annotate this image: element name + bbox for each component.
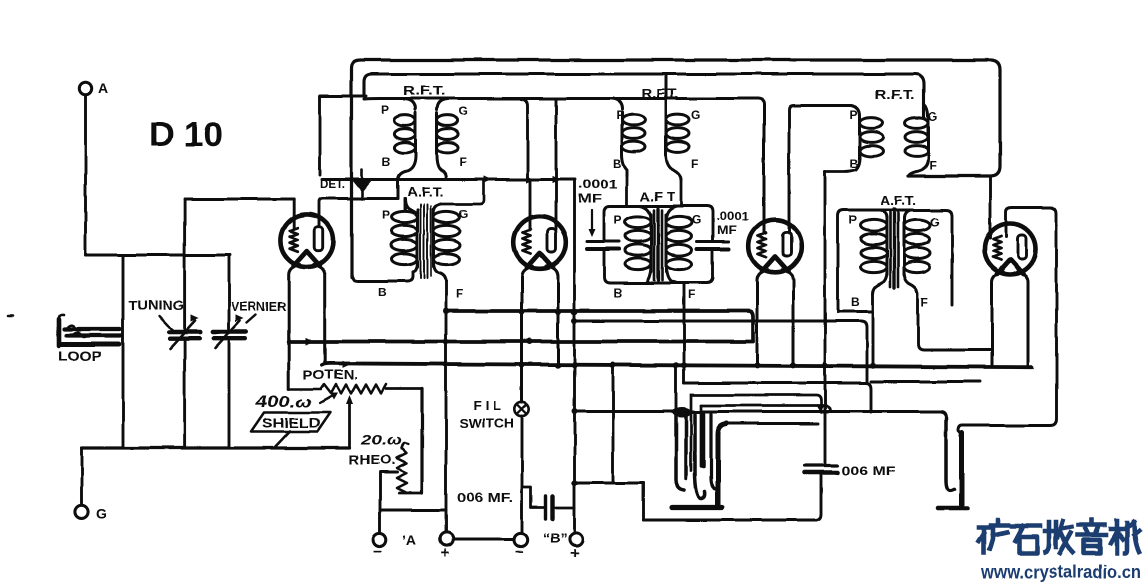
label R.F.T. (third RF transformer) bbox=[875, 88, 915, 102]
value 006 MF bbox=[841, 464, 895, 478]
label A.F.T. (third AF transformer) bbox=[880, 194, 916, 208]
pin P of A.F.T.3 bbox=[849, 213, 857, 227]
battery terminal A plus bbox=[440, 532, 453, 545]
pin P of R.F.T.1 bbox=[381, 103, 389, 117]
tube V1 right filament leg bbox=[314, 265, 325, 364]
svg-text:F: F bbox=[691, 157, 698, 171]
junction arrows on grid return bus bbox=[305, 338, 350, 368]
tube V1 left filament leg bbox=[289, 265, 300, 390]
watermark www.crystalradio.cn bbox=[980, 561, 1141, 582]
pin F of R.F.T.1 bbox=[459, 155, 466, 169]
polarity plus of B battery bbox=[570, 545, 579, 562]
wire: A.F.T.3 B lead to filament bus bbox=[872, 294, 875, 366]
polarity plus of A battery bbox=[441, 545, 450, 562]
svg-text:−: − bbox=[374, 543, 383, 560]
wire: rheostat arm to A minus bbox=[380, 472, 397, 533]
svg-text:G: G bbox=[691, 108, 700, 122]
label RHEO. bbox=[349, 453, 395, 467]
wire: V1 right leg extension into bus bbox=[324, 274, 326, 364]
svg-text:F I L: F I L bbox=[473, 399, 501, 413]
A.F.T.1 iron core bbox=[421, 204, 432, 278]
label DET. bbox=[320, 179, 345, 191]
svg-text:MF: MF bbox=[717, 225, 737, 237]
wire: A plus to B minus link bbox=[454, 538, 515, 541]
svg-text:006 MF.: 006 MF. bbox=[457, 491, 513, 505]
pin G of A.F.T.3 bbox=[930, 215, 939, 229]
wire: V2 plate riser bbox=[555, 99, 558, 229]
net: outer B+ top rail bbox=[352, 60, 1001, 277]
label G (ground terminal) bbox=[96, 505, 107, 521]
svg-text:G: G bbox=[692, 213, 701, 227]
wire: V3 grid riser bbox=[763, 104, 765, 234]
pin G of A.F.T.2 bbox=[692, 213, 701, 227]
pin P of R.F.T.3 bbox=[850, 108, 858, 122]
value 20 ohm annotation bbox=[360, 433, 407, 448]
tube V2 left filament leg bbox=[522, 266, 533, 402]
pin B of A.F.T.1 bbox=[378, 285, 387, 299]
wire: vernier capacitor branch lower bbox=[228, 342, 231, 449]
svg-text:F: F bbox=[456, 287, 463, 301]
svg-text:A.F.T.: A.F.T. bbox=[880, 194, 916, 208]
wire: V2 grid stub bbox=[529, 181, 532, 230]
wire: A plus riser bbox=[445, 311, 448, 531]
wire: V4 grid stub from rail bbox=[989, 176, 992, 238]
A.F.T.3 primary coil bbox=[861, 210, 887, 294]
svg-text:“B”: “B” bbox=[543, 530, 567, 546]
wire: bus level y405 elbow bbox=[701, 406, 830, 412]
svg-text:F: F bbox=[921, 295, 928, 309]
svg-text:RHEO.: RHEO. bbox=[349, 453, 395, 467]
wire: elbow level y395 drop bbox=[690, 395, 693, 471]
wire: V1 grid top stub bbox=[292, 199, 295, 228]
loop antenna bbox=[58, 314, 122, 346]
wire: elbow level y405 drop bbox=[700, 406, 703, 467]
svg-text:P: P bbox=[382, 208, 390, 222]
R.F.T.2 primary coil bbox=[611, 99, 645, 177]
set title D 10 bbox=[149, 116, 223, 154]
svg-text:F: F bbox=[688, 288, 695, 302]
svg-text:+: + bbox=[441, 545, 450, 562]
resistor rheostat 20 ohm bbox=[397, 443, 423, 493]
A.F.T.3 iron core bbox=[890, 209, 898, 288]
A.F.T.2 secondary coil bbox=[666, 206, 692, 283]
wire: A.F.T.1 G lead to grid line bbox=[441, 180, 484, 205]
terminal A bbox=[79, 82, 91, 94]
battery terminal B minus bbox=[514, 533, 527, 546]
watermark logo (crystal radio Chinese characters) bbox=[979, 520, 1139, 553]
pin P of R.F.T.2 bbox=[616, 108, 624, 122]
wire: ground bus bottom bbox=[82, 446, 350, 449]
tube V2 (first amplifier) bbox=[514, 216, 567, 269]
annotation arrow to .0001 MF capacitor bbox=[589, 210, 596, 237]
svg-text:B: B bbox=[378, 285, 387, 299]
wire: R.F.T.1 box right edge bbox=[521, 99, 528, 180]
stray mark bbox=[8, 315, 13, 318]
wire: x575 drop grid-line to B plus terminal bbox=[573, 180, 576, 533]
pin F of A.F.T.2 bbox=[688, 288, 695, 302]
tube V4 left filament leg bbox=[992, 272, 1003, 365]
label TUNING bbox=[128, 298, 184, 313]
A.F.T.1 primary coil bbox=[392, 199, 418, 273]
net: B minus return rail bbox=[643, 518, 816, 521]
wire: DET vertical drop bbox=[319, 96, 322, 175]
svg-text:B: B bbox=[613, 286, 622, 300]
wire: A.F.T.1 B loop (box bottom) bbox=[352, 272, 414, 281]
wire: A.F.T.2 resonant box frame bbox=[604, 206, 713, 283]
wire: A.F.T.3 box bottom edge bbox=[838, 310, 873, 313]
net: R.F.T.1 box top edge and plate rail to V3 bbox=[364, 99, 764, 234]
R.F.T.3 secondary coil bbox=[905, 104, 928, 176]
capacitor C1 .0001 MF bbox=[587, 242, 619, 250]
wire: jack feed line y412 bbox=[575, 412, 947, 419]
svg-text:B: B bbox=[382, 155, 391, 169]
wire: return rail riser bbox=[642, 483, 645, 520]
svg-text:LOOP: LOOP bbox=[58, 349, 102, 364]
headphone jack J2 contacts bbox=[938, 418, 967, 508]
svg-text:B: B bbox=[613, 157, 622, 171]
pin G of R.F.T.1 bbox=[459, 104, 468, 118]
wire: top-left rail stub to DET drop bbox=[320, 95, 366, 98]
net: filament plus rail bbox=[446, 311, 753, 341]
wire: R.F.T.2 F lead to A.F.T.2 box bbox=[680, 180, 683, 206]
pin F of A.F.T.3 bbox=[921, 295, 928, 309]
svg-text:D 10: D 10 bbox=[149, 116, 223, 154]
svg-text:.0001: .0001 bbox=[716, 211, 750, 223]
tube V3 right filament leg bbox=[782, 270, 793, 365]
svg-text:P: P bbox=[614, 213, 622, 227]
svg-text:20.ω,: 20.ω, bbox=[360, 433, 407, 448]
SHIELD label plate bbox=[251, 413, 330, 432]
svg-text:G: G bbox=[96, 505, 107, 521]
wire: bus level y383 right stub bbox=[871, 380, 981, 383]
wire: A.F.T.1 primary top lead bbox=[404, 199, 407, 211]
wire: A.F.T.3 F lead to V4 leg bbox=[918, 294, 992, 350]
label "B" battery bbox=[543, 530, 567, 546]
A.F.T.2 primary coil bbox=[625, 206, 651, 283]
A.F.T.2 iron core bbox=[654, 209, 662, 280]
pin B of R.F.T.1 bbox=[382, 155, 391, 169]
annotation arrow 400w bbox=[320, 393, 338, 403]
pin G of R.F.T.2 bbox=[691, 108, 700, 122]
wire: bus level y395 bbox=[691, 395, 821, 412]
headphone jack J1 contacts bbox=[672, 414, 818, 508]
potentiometer wiper arm to ground bbox=[346, 395, 353, 448]
terminal G bbox=[75, 505, 88, 518]
tube V3 (second amplifier) bbox=[749, 220, 802, 273]
wire: bypass condenser riser bbox=[824, 172, 827, 464]
wire: A battery link y510 bbox=[380, 509, 446, 512]
pin F of A.F.T.1 bbox=[456, 287, 463, 301]
filament switch bbox=[515, 402, 529, 416]
label SHIELD bbox=[262, 415, 320, 431]
R.F.T.1 secondary coil G-F bbox=[437, 99, 459, 180]
label 'A battery bbox=[402, 532, 416, 548]
svg-text:F: F bbox=[459, 155, 466, 169]
svg-text:B: B bbox=[850, 157, 859, 171]
pin P of A.F.T.1 bbox=[382, 208, 390, 222]
svg-text:.0001: .0001 bbox=[578, 177, 618, 191]
svg-text:P: P bbox=[616, 108, 624, 122]
svg-text:−: − bbox=[515, 543, 524, 560]
wire: filament switch lower lead to B minus terminal bbox=[521, 416, 524, 532]
svg-text:G: G bbox=[459, 207, 468, 221]
label FIL bbox=[473, 399, 501, 413]
svg-text:+: + bbox=[570, 545, 579, 562]
diode DET (crystal detector) bbox=[353, 170, 371, 199]
wire: A.F.T.3 box frame bbox=[838, 210, 952, 312]
pin P of A.F.T.2 bbox=[614, 213, 622, 227]
wire: filament feed down x422 bbox=[420, 389, 423, 493]
svg-text:G: G bbox=[459, 104, 468, 118]
label SWITCH bbox=[459, 417, 514, 431]
tube V3 left filament leg bbox=[757, 270, 768, 365]
svg-text:R.F.T.: R.F.T. bbox=[403, 84, 445, 98]
svg-text:G: G bbox=[928, 110, 937, 124]
R.F.T.3 primary coil bbox=[851, 106, 883, 171]
wire: return branch y483 bbox=[575, 482, 644, 485]
svg-text:MF: MF bbox=[578, 191, 602, 205]
junction bump on filament rail at x575 bbox=[443, 308, 876, 486]
variable capacitor VERNIER bbox=[213, 315, 256, 349]
A.F.T.1 secondary coil bbox=[434, 204, 460, 282]
wire: tuning capacitor branch lower bbox=[183, 342, 186, 449]
label R.F.T. (first RF transformer) bbox=[403, 84, 445, 98]
A.F.T.3 secondary coil bbox=[904, 210, 930, 294]
label A.F.T. (first AF transformer) bbox=[407, 185, 444, 199]
svg-text:’A: ’A bbox=[402, 532, 416, 548]
capacitor C3 .006 MF (plate bypass) bbox=[805, 466, 837, 473]
svg-text:POTEN.: POTEN. bbox=[303, 368, 358, 382]
pin B of R.F.T.2 bbox=[613, 157, 622, 171]
svg-text:A: A bbox=[98, 80, 108, 96]
tube V4 right filament leg bbox=[1017, 272, 1028, 367]
wire: V4 plate to output jack bbox=[958, 208, 1057, 435]
battery terminal B plus bbox=[569, 532, 582, 545]
wire: drop x613 to return branch bbox=[612, 365, 615, 483]
svg-text:TUNING: TUNING bbox=[128, 298, 184, 313]
svg-text:DET.: DET. bbox=[320, 179, 345, 191]
wire: blob drop from filament bus bbox=[675, 366, 678, 409]
resistor potentiometer 400 ohm bbox=[289, 385, 422, 394]
label POTEN. bbox=[303, 368, 358, 382]
shield enclosure label pointer bbox=[274, 431, 290, 448]
svg-text:A.F T: A.F T bbox=[640, 190, 675, 204]
label A (antenna terminal) bbox=[98, 80, 108, 96]
junction arrows on detector grid line bbox=[484, 176, 560, 183]
wire: bus level y383 bbox=[684, 383, 871, 412]
capacitor C4 .006 MF (across battery) bbox=[522, 487, 575, 519]
pin G of R.F.T.3 bbox=[928, 110, 937, 124]
junction blob at jack bundle bbox=[673, 407, 692, 417]
svg-text:A.F.T.: A.F.T. bbox=[407, 185, 444, 199]
value .0001 (right capacitor) bbox=[716, 211, 750, 223]
net: grid return bus bbox=[289, 340, 753, 344]
wire: V1 plate to R.F.T.1 primary and A.F.T.1 primary bbox=[319, 199, 398, 227]
svg-text:VERNIER: VERNIER bbox=[231, 299, 287, 314]
svg-text:R.F.T.: R.F.T. bbox=[875, 88, 915, 102]
svg-text:B: B bbox=[851, 295, 860, 309]
tube V4 (output) bbox=[985, 224, 1036, 275]
battery terminal A minus bbox=[373, 533, 386, 546]
wire: antenna A down lead bbox=[84, 95, 87, 255]
pin G of A.F.T.1 bbox=[459, 207, 468, 221]
svg-text:P: P bbox=[849, 213, 857, 227]
svg-text:www.crystalradio.cn: www.crystalradio.cn bbox=[980, 561, 1141, 582]
R.F.T.2 secondary coil bbox=[666, 75, 689, 180]
wire: A.F.T.2 F lead down through buses bbox=[683, 284, 686, 383]
svg-text:006 MF: 006 MF bbox=[841, 464, 895, 478]
net: detector grid line bbox=[322, 178, 575, 181]
svg-text:P: P bbox=[850, 108, 858, 122]
wire: tuning capacitor branch upper bbox=[183, 199, 186, 329]
svg-text:G: G bbox=[930, 215, 939, 229]
wire: filament switch upper lead bbox=[521, 365, 524, 402]
svg-text:SWITCH: SWITCH bbox=[459, 417, 514, 431]
tube V1 (detector) bbox=[280, 214, 333, 267]
wire: A.F.T.1 F lead down bbox=[445, 280, 448, 311]
wire: B plus branch along y321 bbox=[575, 321, 868, 383]
R.F.T.1 primary coil P-B bbox=[394, 99, 416, 199]
value .0001 (grid condenser) bbox=[578, 177, 618, 191]
pin B of A.F.T.2 bbox=[613, 286, 622, 300]
pin B of R.F.T.3 bbox=[850, 157, 859, 171]
capacitor C2 .0001 MF (right) bbox=[697, 242, 729, 250]
svg-text:F: F bbox=[929, 158, 936, 172]
unit MF bbox=[578, 191, 602, 205]
polarity minus of B battery bbox=[515, 543, 524, 560]
label LOOP bbox=[58, 349, 102, 364]
label R.F.T. (second RF transformer) bbox=[641, 87, 679, 101]
wire: shield box left side bbox=[122, 255, 125, 448]
svg-text:R.F.T.: R.F.T. bbox=[641, 87, 679, 101]
unit MF (right capacitor) bbox=[717, 225, 737, 237]
value 400 ohm annotation bbox=[255, 394, 312, 411]
pin B of A.F.T.3 bbox=[851, 295, 860, 309]
wire: tuned circuit to tube V1 grid bbox=[185, 198, 294, 201]
tube V2 right filament leg bbox=[547, 266, 558, 364]
pin F of R.F.T.2 bbox=[691, 157, 698, 171]
wire: ground terminal riser bbox=[80, 448, 83, 505]
variable capacitor TUNING bbox=[159, 315, 200, 349]
junction arrow at bypass riser bbox=[816, 405, 825, 413]
wire: R.F.T.2 B lead to A.F.T.2 box bbox=[626, 176, 629, 206]
svg-text:400.ω: 400.ω bbox=[255, 394, 312, 411]
wire: vernier capacitor branch upper bbox=[228, 255, 231, 329]
net: filament minus bus bbox=[322, 363, 1032, 367]
label A.F.T. (second AF transformer) bbox=[640, 190, 675, 204]
polarity minus of A battery bbox=[374, 543, 383, 560]
wire: antenna node horizontal to vernier bbox=[86, 254, 231, 257]
wire: C3 bottom lead bbox=[815, 473, 821, 520]
value .006 MF. bbox=[457, 491, 513, 505]
svg-text:P: P bbox=[381, 103, 389, 117]
label VERNIER bbox=[231, 299, 287, 314]
pin F of R.F.T.3 bbox=[929, 158, 936, 172]
net: inner top rail bbox=[364, 74, 924, 118]
wire: R.F.T.3 B lead to bypass node bbox=[825, 170, 856, 172]
wire: V3 plate riser and R.F.T.3 feed bbox=[789, 106, 851, 234]
svg-text:SHIELD: SHIELD bbox=[262, 415, 320, 431]
